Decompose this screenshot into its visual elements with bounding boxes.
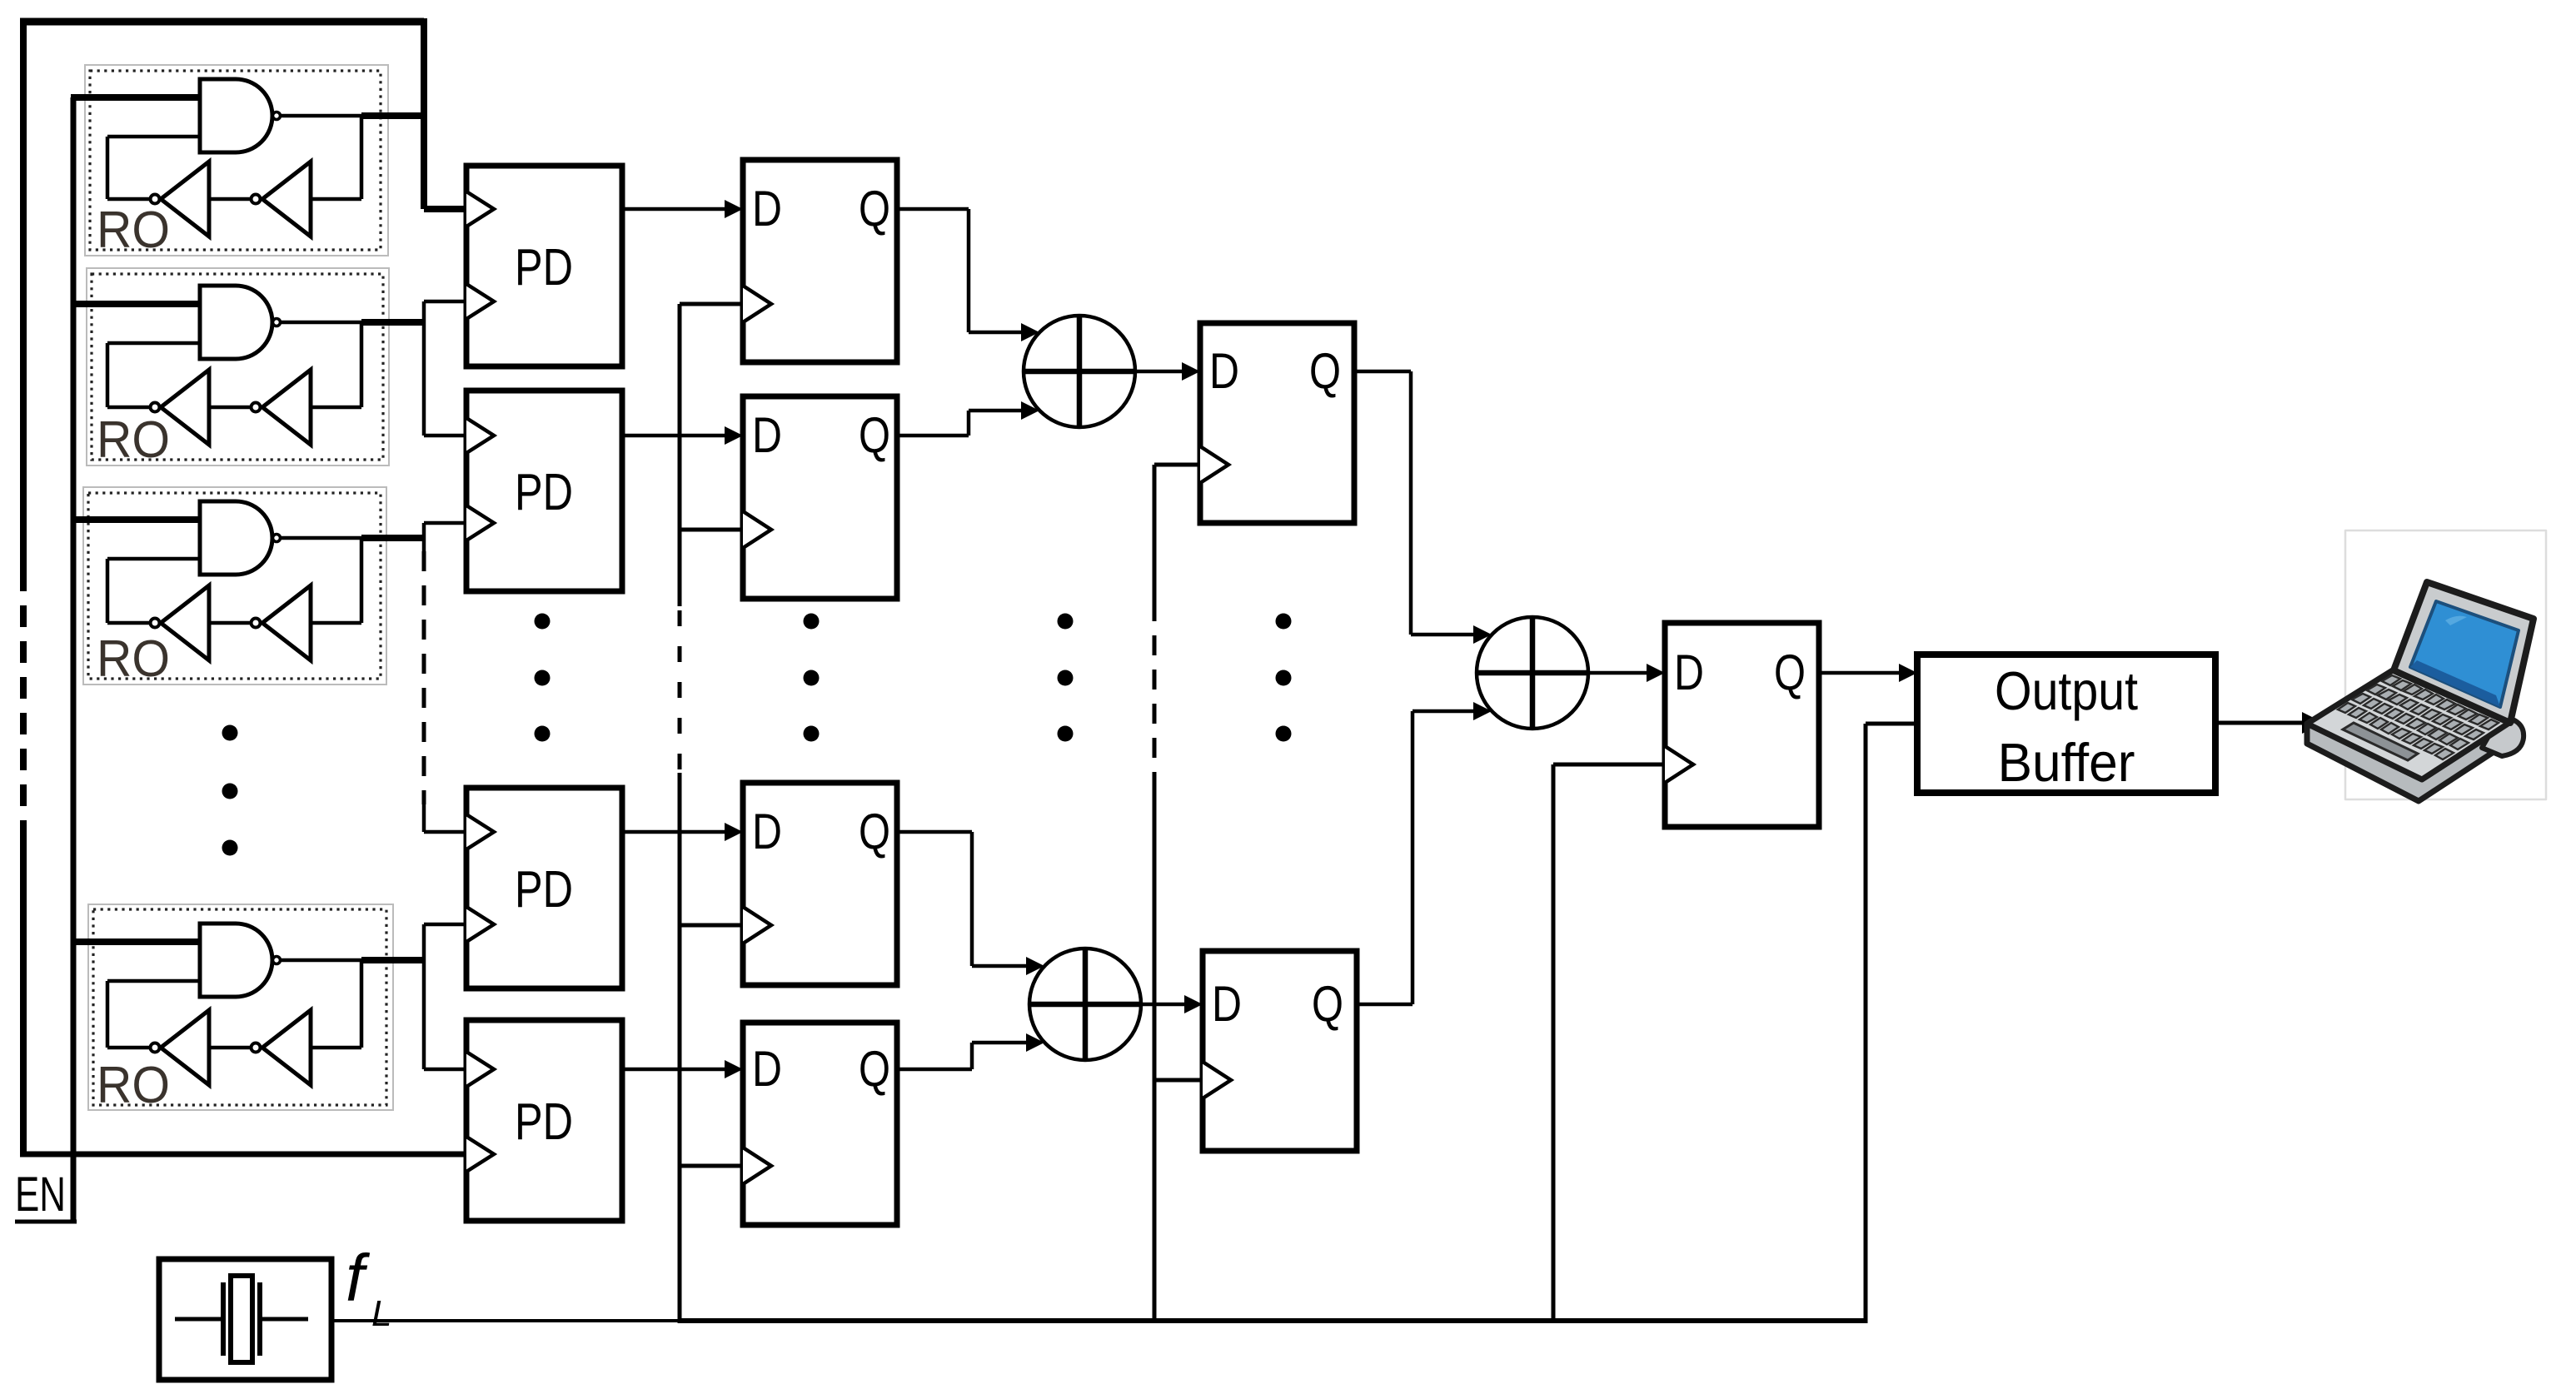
wire jog to PD3 first input (424, 830, 467, 834)
wire PD4 output to FF4 D input (622, 1068, 730, 1072)
wire RO3 output thick segment (361, 535, 424, 541)
inverter 1 of RO1 (161, 162, 209, 236)
wire right vertical of frame down to PD1 first input (RO1 net) (421, 18, 427, 209)
wire inverter1-inverter2 of RO4 (209, 1046, 250, 1050)
wire FF5 Q to XOR X2 upper input (1354, 370, 1411, 374)
wire FF6 Q to XOR X2 lower input (1357, 1003, 1413, 1007)
clock chevron of FF5 (1200, 446, 1228, 483)
input chevron 1 of PD4 (466, 1052, 494, 1087)
input chevron 2 of PD1 (466, 284, 494, 319)
inverter 1 of RO2 (161, 370, 209, 445)
ellipsis dots column x=1279 (1058, 614, 1074, 630)
D flip-flop FF1 (743, 160, 897, 362)
svg-text:RO: RO (97, 630, 170, 688)
clock chevron of FF2 (743, 511, 771, 548)
wire clock stub to Output Buffer (1866, 722, 1917, 726)
wire PD3 output to FF3 D input (622, 830, 730, 834)
NAND gate of RO3 (200, 501, 272, 575)
wire FF2 Q to XOR X1 lower input (897, 434, 969, 438)
input chevron 2 of PD3 (466, 907, 494, 942)
wire FF3 Q to XOR X3 upper input (897, 830, 972, 834)
D flip-flop FF7 (1665, 623, 1819, 827)
inverter 2 of RO3 (262, 585, 311, 660)
feedback wire NAND input to inverter 1 output of RO1 (107, 135, 200, 139)
inverter 2 of RO1 (262, 162, 311, 236)
D flip-flop FF6 (1203, 951, 1357, 1151)
wire RO3 jog vertical dashed (abbreviated ROs) (422, 551, 426, 804)
ring oscillator RO4 enclosure (88, 904, 393, 1110)
svg-text:Q: Q (859, 181, 890, 236)
svg-text:Output: Output (1995, 660, 2138, 721)
feedback wire NAND input to inverter 1 output of RO3 (107, 557, 200, 561)
wire clock riser x816 solid lower (678, 773, 682, 1323)
D flip-flop FF3 (743, 783, 897, 985)
wire clock stub to FF5 (1154, 463, 1200, 467)
wire clock riser x816 dashed middle (678, 610, 682, 773)
clock chevron of FF3 (743, 907, 771, 943)
ellipsis dots column x=974 (804, 614, 820, 630)
wire clock riser x1865 to FF7 (1552, 764, 1556, 1323)
wire XOR X2 output to FF7 D input (1588, 671, 1652, 675)
input chevron 1 of PD3 (466, 814, 494, 849)
clock chevron of FF7 (1665, 746, 1693, 783)
svg-text:PD: PD (515, 239, 573, 296)
NAND gate of RO4 (200, 924, 272, 997)
wire EN bus to RO4 NAND input (73, 938, 200, 945)
wire top frame horizontal (RO1 net) (20, 18, 424, 26)
wire left vertical bus dashed segment (RO1 net) (20, 570, 27, 833)
output wire of RO2 (282, 321, 363, 325)
ellipsis dots column x=276 (222, 725, 238, 741)
svg-text:PD: PD (515, 1093, 573, 1151)
wire PD2 output to FF2 D input (622, 434, 730, 438)
svg-text:Q: Q (1309, 343, 1341, 399)
wire EN bus to RO2 NAND input (73, 301, 200, 307)
wire RO4 jog vertical (422, 924, 426, 1069)
input chevron 1 of PD2 (466, 418, 494, 453)
wire RO4 output thick segment (361, 957, 424, 963)
phase detector PD2 (466, 391, 622, 591)
wire jog to PD2 first input (424, 434, 467, 438)
svg-text:Q: Q (859, 1041, 890, 1097)
wire clock riser x1386 dashed middle (1153, 601, 1157, 784)
wire RO2 output jog vertical (422, 301, 426, 436)
wire clock stub to FF1 (680, 302, 743, 306)
phase detector PD1 (466, 166, 622, 366)
output wire of RO3 (282, 536, 363, 540)
svg-text:D: D (752, 804, 782, 859)
wire clock riser x1386 solid lower (1153, 784, 1157, 1323)
wire clock stub to FF2 (680, 528, 743, 532)
clock chevron of FF1 (743, 286, 771, 322)
ellipsis dots column x=651 (535, 614, 551, 630)
wire jog to PD4 first input (424, 1068, 467, 1072)
wire PD1 output to FF1 D input (622, 207, 730, 212)
wire FF4 Q to XOR X3 lower input (897, 1068, 972, 1072)
wire FF1 Q to XOR X1 upper input (897, 207, 969, 212)
wire EN bus to RO3 NAND input (73, 516, 200, 523)
wire f_L bus horizontal left thin segment (331, 1319, 680, 1322)
wire XOR X3 output to FF6 D input (1141, 1003, 1189, 1007)
wire RO3 jog vertical upper solid (422, 523, 426, 551)
wire inverter2 to NAND output node of RO3 (311, 621, 361, 625)
svg-text:D: D (1209, 343, 1239, 399)
laptop spacebar (2343, 723, 2418, 760)
wire EN bus to RO1 NAND input (71, 94, 200, 101)
svg-text:Q: Q (859, 407, 890, 463)
wire clock riser x816 solid upper (678, 304, 682, 606)
ellipsis dots column x=1541 (1276, 614, 1292, 630)
wire inverter1-inverter2 of RO2 (209, 406, 250, 410)
svg-text:D: D (752, 1041, 782, 1097)
wire jog to PD2 second input (424, 521, 467, 525)
svg-text:RO: RO (97, 411, 170, 469)
wire XOR X1 output to FF5 D input (1135, 370, 1187, 374)
Output Buffer block (1917, 655, 2215, 793)
NAND gate of RO2 (200, 286, 272, 359)
wire elbow into PD1 first input (424, 206, 467, 212)
svg-text:D: D (752, 181, 782, 236)
svg-text:PD: PD (515, 861, 573, 919)
wire RO3 jog vertical lower solid (422, 804, 426, 832)
wire left vertical bus lower segment (RO1 net) (20, 833, 27, 1154)
ring oscillator RO1 enclosure (85, 65, 388, 256)
phase detector PD3 (466, 788, 622, 988)
clock chevron of FF4 (743, 1148, 771, 1184)
inverter 2 of RO2 (262, 370, 311, 445)
thick segment of RO1 output joining bus (361, 112, 427, 119)
svg-text:D: D (752, 407, 782, 463)
wire FF7 Q to Output Buffer input (1819, 671, 1904, 675)
wire jog to PD3 second input (424, 923, 467, 927)
crystal oscillator box (159, 1259, 331, 1380)
wire clock stub to FF3 (680, 924, 743, 928)
svg-text:RO: RO (97, 1057, 170, 1114)
crystal symbol (175, 1317, 223, 1322)
ring oscillator RO3 enclosure (83, 487, 386, 685)
wire f_L bus horizontal main segment (680, 1318, 1866, 1323)
D flip-flop FF2 (743, 396, 897, 599)
wire inverter1-inverter2 of RO1 (209, 197, 250, 202)
wire inverter2 to NAND output node of RO4 (311, 1046, 361, 1050)
svg-text:Q: Q (859, 804, 890, 859)
wire clock stub to FF6 (1154, 1078, 1203, 1083)
svg-text:L: L (371, 1293, 391, 1334)
wire RO2 output thick segment (361, 319, 424, 326)
XOR gate X2 (1477, 617, 1588, 729)
wire inverter2 to NAND output node of RO1 (311, 197, 361, 202)
clock chevron of FF6 (1203, 1062, 1231, 1098)
wire bottom horizontal EN-row to PD4 second input (RO1 net) (20, 1152, 467, 1158)
NAND gate of RO1 (200, 79, 272, 152)
input chevron 2 of PD4 (466, 1137, 494, 1172)
inverter 1 of RO4 (161, 1010, 209, 1085)
svg-text:RO: RO (97, 202, 170, 259)
input chevron 2 of PD2 (466, 505, 494, 540)
input chevron 1 of PD1 (466, 192, 494, 227)
phase detector PD4 (466, 1020, 622, 1221)
svg-text:D: D (1674, 645, 1704, 700)
EN vertical bus line (71, 97, 77, 1222)
wire clock riser x1386 solid upper (1153, 465, 1157, 601)
feedback wire NAND input to inverter 1 output of RO2 (107, 341, 200, 346)
svg-text:Buffer: Buffer (1998, 732, 2135, 793)
svg-text:D: D (1212, 976, 1242, 1032)
svg-text:EN: EN (15, 1167, 66, 1222)
svg-text:PD: PD (515, 464, 573, 521)
laptop keyboard keys (2338, 675, 2499, 759)
wire inverter2 to NAND output node of RO2 (311, 406, 361, 410)
ring oscillator RO2 enclosure (87, 268, 389, 465)
wire left vertical bus upper segment (RO1 net) (20, 18, 27, 570)
inverter 1 of RO3 (161, 585, 209, 660)
D flip-flop FF4 (743, 1023, 897, 1225)
output wire of RO1 (282, 114, 363, 118)
inverter 2 of RO4 (262, 1010, 311, 1085)
wire clock riser x2240 to Output Buffer (1864, 724, 1868, 1323)
svg-text:Q: Q (1312, 976, 1343, 1032)
svg-text:Q: Q (1774, 645, 1806, 700)
wire clock stub to FF7 (1553, 763, 1665, 767)
wire jog to PD1 second input (424, 300, 467, 304)
EN terminal underline (15, 1220, 77, 1224)
wire clock stub to FF4 (680, 1164, 743, 1168)
wire inverter1-inverter2 of RO3 (209, 621, 250, 625)
XOR gate X3 (1029, 948, 1141, 1060)
output wire of RO4 (282, 958, 363, 963)
laptop computer clipart (2307, 530, 2546, 801)
wire Output Buffer to laptop (2217, 721, 2309, 725)
D flip-flop FF5 (1200, 323, 1354, 523)
feedback wire NAND input to inverter 1 output of RO4 (107, 979, 200, 983)
XOR gate X1 (1024, 316, 1135, 427)
